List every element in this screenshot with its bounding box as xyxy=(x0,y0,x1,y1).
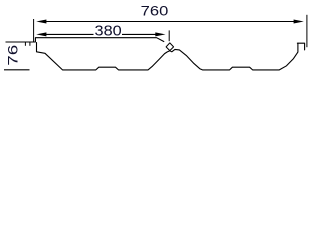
extension line top for 76 xyxy=(6,41,25,43)
profile sheet top outline (left lip, top flat, crown of middle rib) xyxy=(24,38,164,42)
arrowhead left of 380 line xyxy=(36,32,46,36)
arrowhead right of 380 line xyxy=(155,32,165,36)
extension line right xyxy=(306,15,308,47)
dimension line 380 xyxy=(44,33,159,35)
svg-text:76: 76 xyxy=(4,44,20,65)
arrowhead left of 760 line xyxy=(36,20,46,24)
diamond crown on middle rib xyxy=(166,43,174,51)
capillary tick 1 on left lip xyxy=(24,42,26,46)
dimension line 760 xyxy=(44,21,297,23)
capillary tick 2 on left lip xyxy=(29,42,31,46)
extension line left xyxy=(33,19,35,42)
extension tick middle rib xyxy=(168,30,170,41)
overhang tick at right hook corner xyxy=(297,42,299,44)
profile main lower outline xyxy=(37,43,305,70)
white backing of 380 text xyxy=(94,25,123,36)
arrowhead right of 760 line xyxy=(294,20,304,24)
extension line bottom for 76 xyxy=(4,69,30,71)
svg-text:380: 380 xyxy=(95,23,122,39)
svg-text:760: 760 xyxy=(141,2,169,18)
